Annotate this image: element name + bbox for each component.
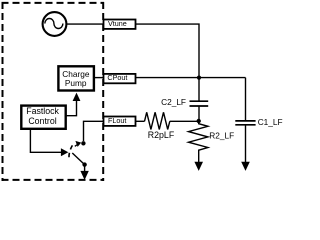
ground arrow below switch <box>80 171 88 180</box>
svg-text:Fastlock: Fastlock <box>26 106 59 116</box>
capacitor C2_LF <box>190 100 209 102</box>
arrow into charge pump <box>73 93 81 101</box>
control wire fastlock to charge pump <box>66 100 77 116</box>
control wire fastlock to switch <box>30 129 61 153</box>
switch blade <box>72 153 84 165</box>
oscillator VCO <box>43 12 67 36</box>
resistor R2pLF <box>145 112 170 129</box>
arrow at switch <box>61 148 68 156</box>
chip outline left edge (dashed) <box>2 2 4 181</box>
wire FLout to R2pLF <box>136 120 145 122</box>
capacitor C1_LF <box>245 78 247 121</box>
wire C1 bottom <box>245 125 247 162</box>
pin box CPout <box>104 74 136 83</box>
svg-text:FLout: FLout <box>108 116 126 125</box>
wire R2pLF to junction <box>170 120 199 122</box>
wire CPout to C1_LF <box>136 77 246 79</box>
sine wave <box>45 19 63 29</box>
pin box FLout <box>104 117 136 126</box>
ground arrow below R2_LF <box>194 162 203 171</box>
wire FLout to switch <box>84 121 104 141</box>
charge pump U <box>58 66 94 90</box>
chip outline bottom edge (dashed) <box>2 179 105 181</box>
svg-text:Vtune: Vtune <box>108 19 127 28</box>
svg-text:CPout: CPout <box>107 73 127 82</box>
svg-text:Control: Control <box>28 116 56 126</box>
wire VCO to Vtune <box>66 23 103 25</box>
switch bottom contact <box>82 162 86 166</box>
chip outline right edge (dashed) <box>102 2 104 181</box>
wire Vtune to top-right corner <box>136 24 200 101</box>
switch motion arrow <box>75 145 78 147</box>
svg-text:R2pLF: R2pLF <box>148 130 175 140</box>
switch top contact <box>81 141 85 145</box>
wire C2 bottom to junction <box>198 106 200 121</box>
junction node <box>197 119 201 123</box>
wire charge pump to CPout <box>94 77 104 79</box>
ground arrow below C1_LF <box>241 162 250 171</box>
junction node <box>197 76 201 80</box>
wire switch to ground <box>84 165 86 172</box>
resistor R2_LF <box>189 121 208 162</box>
switch open-position dashes <box>69 145 72 160</box>
svg-text:C2_LF: C2_LF <box>161 97 186 107</box>
fastlock control U <box>21 106 65 129</box>
svg-text:C1_LF: C1_LF <box>258 117 283 127</box>
svg-text:R2_LF: R2_LF <box>209 130 234 140</box>
svg-text:Pump: Pump <box>65 78 87 88</box>
chip outline top edge (dashed) <box>2 2 105 4</box>
pin box Vtune <box>104 20 136 29</box>
